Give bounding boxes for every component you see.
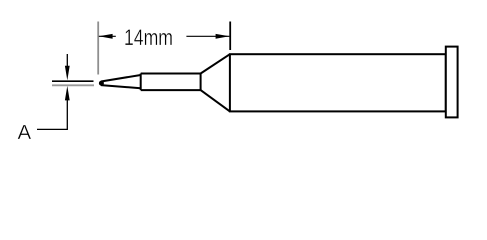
body cylinder rectangle — [230, 54, 446, 111]
label A — [18, 121, 32, 144]
tip diameter tick bottom (gray) — [52, 84, 94, 86]
upper arrow pointing down at tip diameter — [65, 54, 70, 80]
shaft bottom edge — [141, 89, 201, 91]
svg-text:14mm: 14mm — [124, 25, 173, 50]
tip diameter tick top (black) — [52, 80, 94, 82]
shaft top edge — [141, 73, 201, 75]
end cap ring — [446, 47, 458, 118]
dimension text 14mm — [124, 25, 173, 50]
dimension line 14mm right segment with arrowhead — [186, 34, 229, 39]
tip cone outline with rounded apex — [99, 75, 141, 88]
svg-text:A: A — [18, 121, 32, 144]
lower arrow pointing up with leader to label A — [37, 86, 70, 129]
flare bottom edge — [201, 90, 230, 111]
dimension line 14mm left segment with arrowhead — [99, 34, 116, 39]
step line at cone base — [140, 74, 142, 91]
extension line right (at cone/body junction) — [229, 22, 231, 51]
extension line left (gray, at tip apex) — [97, 22, 99, 75]
flare top edge — [201, 54, 230, 73]
shaft end line — [200, 74, 202, 91]
